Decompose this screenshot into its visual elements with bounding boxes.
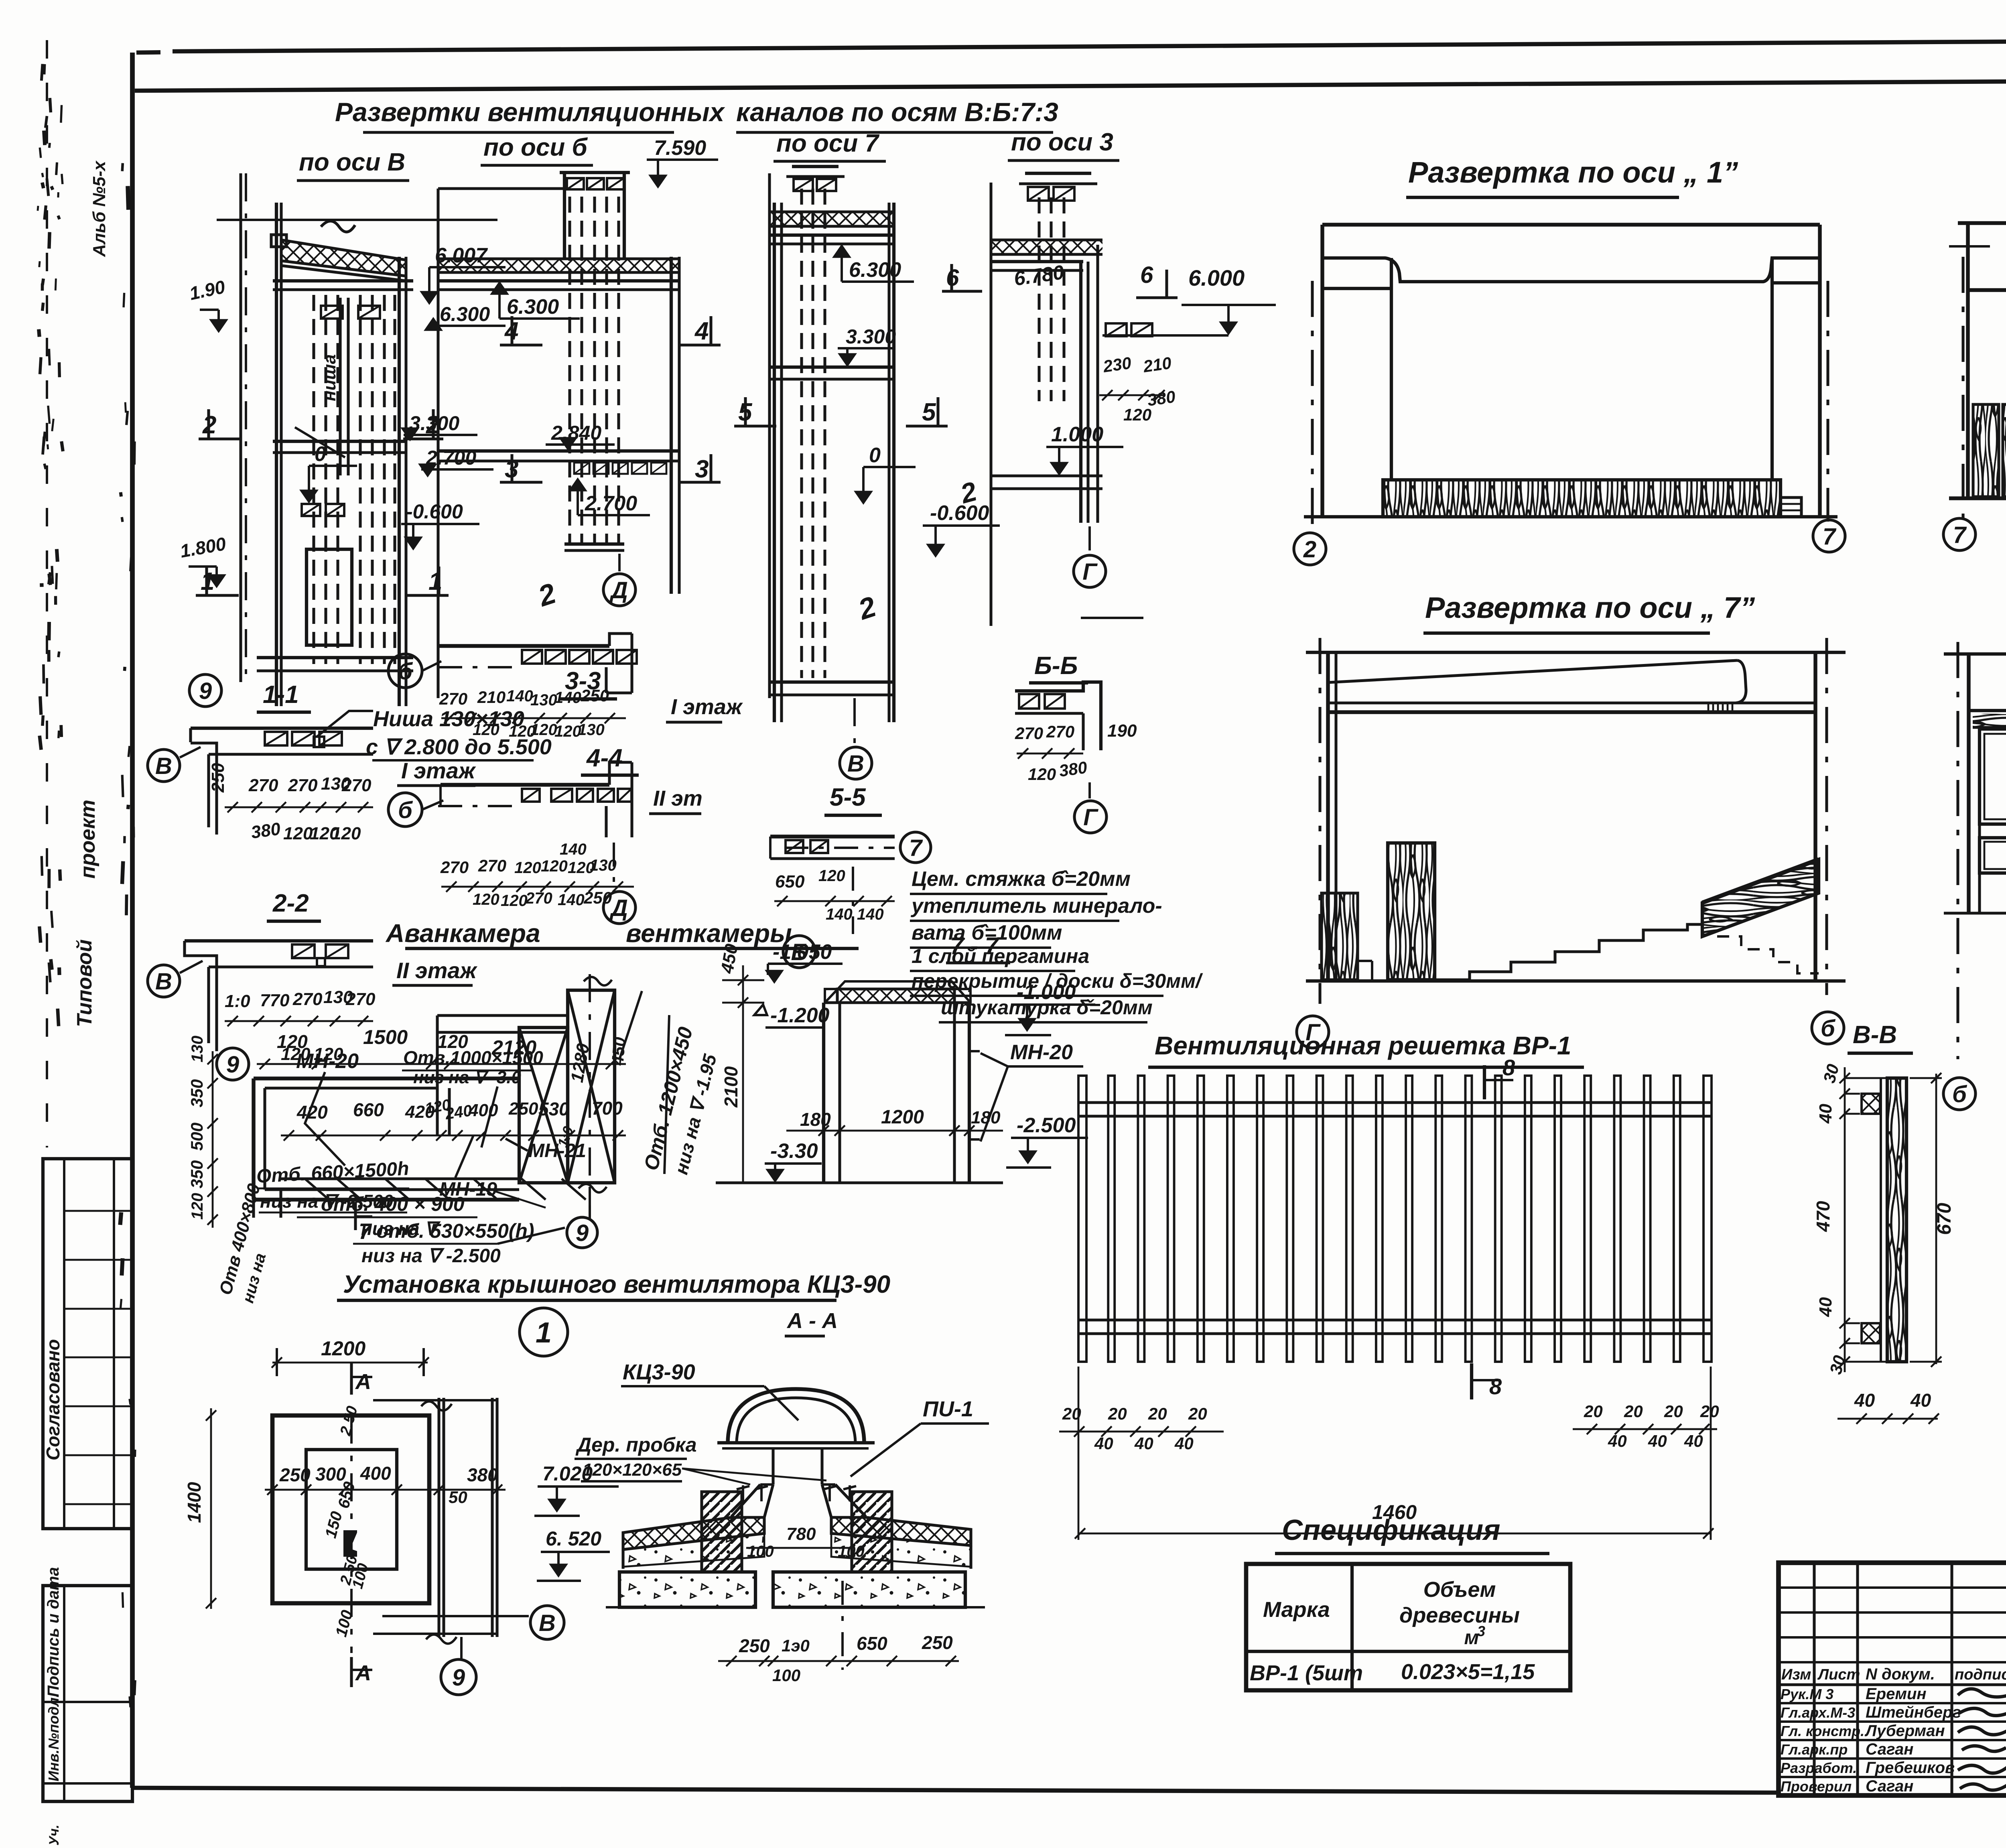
svg-text:решетка ВР-1: решетка ВР-1 — [1387, 1031, 1572, 1060]
svg-text:130: 130 — [590, 857, 617, 874]
svg-text:140: 140 — [558, 891, 585, 909]
svg-text:подпись: подпись — [1955, 1666, 2006, 1683]
svg-text:8: 8 — [1489, 1374, 1502, 1399]
svg-text:Инв.№подл.: Инв.№подл. — [45, 1694, 62, 1781]
svg-text:Саган: Саган — [1866, 1740, 1913, 1758]
svg-text:180: 180 — [971, 1108, 1001, 1127]
svg-text:780: 780 — [786, 1524, 816, 1544]
svg-text:Уч.: Уч. — [47, 1825, 62, 1846]
svg-text:650: 650 — [857, 1633, 887, 1654]
svg-text:б: б — [398, 658, 413, 684]
svg-text:1200: 1200 — [321, 1337, 365, 1360]
svg-text:отб. 400 × 900: отб. 400 × 900 — [321, 1193, 465, 1215]
svg-text:270: 270 — [345, 989, 376, 1009]
svg-text:120: 120 — [473, 891, 499, 908]
svg-text:МН-20: МН-20 — [296, 1050, 359, 1073]
svg-text:270: 270 — [248, 776, 278, 795]
wall detail section 1-1 with niche note — [148, 681, 552, 843]
title Аванкамера венткамеры — [385, 919, 859, 948]
svg-text:20: 20 — [1108, 1404, 1127, 1423]
svg-text:низ на ∇ -2.500: низ на ∇ -2.500 — [361, 1245, 501, 1267]
svg-text:по оси б: по оси б — [483, 134, 588, 161]
plan detail section Б-Б — [1015, 652, 1137, 833]
svg-text:420: 420 — [296, 1102, 328, 1123]
svg-text:Подпись и дата: Подпись и дата — [45, 1567, 62, 1697]
plan of roof fan opening КЦ3-90 — [184, 1337, 564, 1695]
svg-text:530: 530 — [538, 1099, 569, 1119]
svg-text:1200: 1200 — [881, 1107, 924, 1128]
svg-text:Гл.арк.пр: Гл.арк.пр — [1781, 1741, 1848, 1758]
svg-text:Типовой: Типовой — [73, 939, 96, 1027]
svg-text:140: 140 — [506, 687, 533, 705]
elevation Развертка по оси Б — [1943, 156, 2006, 550]
plan Аванкамера вентамеры with dimensions and callouts — [187, 974, 629, 1305]
elevation Развертка по оси 7 — [1297, 591, 1846, 1048]
svg-text:210: 210 — [477, 688, 506, 707]
svg-text:100: 100 — [838, 1543, 865, 1560]
section view po osi V (vent channels development axis V) — [179, 148, 506, 707]
svg-text:380: 380 — [1146, 387, 1177, 410]
plan detail section 4-4 — [388, 744, 703, 924]
svg-text:0: 0 — [315, 443, 326, 466]
svg-text:400: 400 — [360, 1463, 391, 1484]
svg-text:700: 700 — [592, 1098, 623, 1119]
svg-text:ПU-1: ПU-1 — [923, 1397, 973, 1421]
svg-text:2-2: 2-2 — [272, 889, 309, 917]
svg-text:Луберман: Луберман — [1864, 1722, 1945, 1740]
svg-text:МН-21: МН-21 — [528, 1140, 586, 1162]
svg-text:140: 140 — [554, 689, 581, 707]
svg-text:А: А — [355, 1370, 371, 1394]
svg-text:Марка: Марка — [1263, 1598, 1330, 1622]
svg-text:350: 350 — [187, 1079, 206, 1107]
svg-text:350: 350 — [187, 1160, 206, 1188]
svg-text:130: 130 — [578, 721, 605, 739]
svg-text:250: 250 — [508, 1099, 538, 1119]
svg-text:5: 5 — [922, 398, 936, 426]
svg-text:по оси В: по оси В — [299, 148, 405, 176]
svg-text:6.000: 6.000 — [1188, 265, 1245, 290]
svg-text:В: В — [539, 1610, 556, 1636]
svg-text:120: 120 — [1123, 405, 1151, 424]
svg-text:Изм: Изм — [1781, 1666, 1811, 1683]
svg-text:низ на ∇ -3.0: низ на ∇ -3.0 — [413, 1068, 521, 1087]
svg-text:5-5: 5-5 — [830, 784, 866, 811]
title Установка крышного вентилятора КЦ3-90 — [337, 1271, 890, 1356]
svg-text:250: 250 — [581, 686, 609, 705]
svg-text:I этаж: I этаж — [671, 695, 743, 719]
svg-text:Гребешков: Гребешков — [1866, 1759, 1955, 1777]
svg-text:8: 8 — [1502, 1055, 1515, 1080]
svg-text:В: В — [847, 751, 864, 777]
plan detail section 5-5 — [770, 784, 931, 968]
svg-text:-1.050: -1.050 — [773, 940, 832, 964]
svg-text:Гл.арх.М-3: Гл.арх.М-3 — [1781, 1704, 1855, 1721]
svg-text:Лист: Лист — [1817, 1666, 1860, 1683]
svg-text:4-4: 4-4 — [586, 744, 623, 772]
svg-text:Г: Г — [1082, 559, 1098, 585]
svg-text:-2.500: -2.500 — [1017, 1114, 1076, 1137]
svg-text:40: 40 — [1854, 1390, 1875, 1411]
svg-text:120: 120 — [189, 1193, 206, 1220]
svg-text:венткамеры: венткамеры — [626, 919, 792, 948]
svg-text:1.000: 1.000 — [1051, 423, 1103, 446]
svg-text:100: 100 — [772, 1666, 800, 1685]
svg-text:А: А — [355, 1661, 371, 1685]
svg-text:I этаж: I этаж — [401, 758, 476, 783]
svg-text:Д: Д — [609, 577, 628, 603]
svg-text:7 - 7: 7 - 7 — [950, 932, 999, 959]
svg-text:120: 120 — [514, 859, 541, 877]
svg-text:м: м — [1464, 1626, 1479, 1649]
title block (штамп) bottom right — [1779, 1563, 2006, 1795]
svg-text:40: 40 — [1134, 1434, 1153, 1453]
section view po osi b — [438, 134, 721, 698]
section view po osi 3 — [942, 128, 1276, 626]
svg-text:II эт: II эт — [653, 786, 703, 810]
main heading Развертки вентиляционных каналов по осям — [335, 97, 1058, 132]
section 7-7 of vent shaft — [716, 932, 1095, 1183]
rotated opening note Отб 1200х450 — [619, 991, 721, 1176]
svg-text:140: 140 — [560, 841, 587, 858]
svg-text:б: б — [1952, 1081, 1967, 1107]
svg-text:2.840: 2.840 — [551, 422, 601, 444]
svg-text:130: 130 — [189, 1036, 206, 1062]
svg-text:120: 120 — [473, 721, 499, 739]
svg-text:В: В — [155, 753, 172, 779]
svg-text:120: 120 — [541, 857, 568, 875]
svg-text:Развертка по оси „ 7”: Развертка по оси „ 7” — [1425, 591, 1755, 624]
svg-text:Еремин: Еремин — [1866, 1685, 1927, 1703]
svg-text:В: В — [155, 969, 172, 995]
svg-text:3: 3 — [1477, 1623, 1485, 1639]
svg-text:б: б — [1821, 1015, 1836, 1042]
svg-text:Объем: Объем — [1423, 1578, 1496, 1602]
svg-text:утеплитель минерало-: утеплитель минерало- — [910, 894, 1162, 918]
svg-text:-1.200: -1.200 — [770, 1004, 830, 1027]
svg-text:2100: 2100 — [721, 1066, 741, 1108]
svg-text:270: 270 — [292, 989, 323, 1009]
svg-text:120: 120 — [283, 824, 313, 843]
table Спецификация — [1246, 1514, 1570, 1690]
svg-text:Б-Б: Б-Б — [1034, 652, 1078, 680]
svg-text:Штейнберг: Штейнберг — [1866, 1704, 1961, 1721]
svg-text:-1.000: -1.000 — [1017, 981, 1076, 1004]
svg-text:0.023×5=1,15: 0.023×5=1,15 — [1401, 1660, 1535, 1684]
svg-text:Отв.1000×1500: Отв.1000×1500 — [403, 1047, 543, 1068]
svg-text:Альб №5-х: Альб №5-х — [89, 160, 109, 257]
svg-text:40: 40 — [1608, 1432, 1627, 1450]
svg-text:140 140: 140 140 — [826, 906, 884, 923]
svg-text:40: 40 — [1816, 1297, 1835, 1317]
svg-text:3.300: 3.300 — [846, 325, 896, 348]
svg-text:190: 190 — [1107, 721, 1137, 741]
svg-text:7: 7 — [909, 835, 923, 861]
svg-text:6. 520: 6. 520 — [546, 1527, 601, 1550]
svg-text:9: 9 — [576, 1220, 589, 1246]
elevation Развертка по оси 2 — [1943, 586, 2006, 1244]
svg-text:7: 7 — [359, 1218, 372, 1244]
svg-text:Цем. стяжка б̂=20мм: Цем. стяжка б̂=20мм — [912, 867, 1131, 891]
svg-text:4: 4 — [694, 317, 709, 345]
svg-text:7.590: 7.590 — [654, 136, 706, 160]
svg-text:1э0: 1э0 — [782, 1636, 810, 1655]
svg-text:120: 120 — [277, 1031, 308, 1052]
svg-text:-0.600: -0.600 — [930, 502, 989, 525]
svg-text:470: 470 — [1813, 1201, 1833, 1232]
svg-text:Развертка по оси „ 1”: Развертка по оси „ 1” — [1408, 156, 1738, 189]
svg-text:6.300: 6.300 — [849, 258, 901, 282]
svg-text:Разработ.: Разработ. — [1781, 1760, 1857, 1776]
svg-text:КЦ3-90: КЦ3-90 — [623, 1360, 695, 1384]
svg-text:270: 270 — [439, 689, 467, 708]
svg-text:ниша: ниша — [320, 354, 339, 401]
svg-text:Установка крышного вен: Установка крышного вентилятора КЦ3-90 — [343, 1271, 890, 1298]
svg-text:6.300: 6.300 — [440, 303, 490, 325]
svg-text:отб. 530×550(h): отб. 530×550(h) — [376, 1220, 534, 1242]
svg-text:20: 20 — [1700, 1402, 1719, 1421]
svg-text:2.700: 2.700 — [585, 492, 637, 515]
svg-text:20: 20 — [1624, 1402, 1643, 1421]
left margin table Согласовано — [43, 1159, 132, 1529]
svg-text:по оси 3: по оси 3 — [1011, 128, 1113, 156]
left margin rotated annotations — [38, 64, 135, 1707]
svg-text:А - А: А - А — [786, 1309, 838, 1333]
svg-text:7: 7 — [1823, 524, 1837, 550]
svg-text:270: 270 — [1046, 722, 1074, 741]
svg-text:2: 2 — [1303, 536, 1316, 563]
svg-text:II этаж: II этаж — [396, 958, 478, 983]
svg-text:Проверил: Проверил — [1781, 1778, 1852, 1795]
svg-text:650: 650 — [775, 872, 805, 892]
svg-text:Д: Д — [609, 895, 628, 921]
svg-text:250: 250 — [922, 1632, 953, 1653]
svg-text:Г: Г — [1083, 804, 1098, 831]
svg-text:660: 660 — [353, 1099, 384, 1120]
svg-text:3: 3 — [695, 455, 709, 483]
svg-text:20: 20 — [1664, 1402, 1683, 1421]
svg-text:9: 9 — [199, 678, 212, 704]
svg-text:120×120×65: 120×120×65 — [583, 1460, 682, 1480]
roof make-up note (Цем. стяжка etc.) — [910, 867, 1203, 1022]
section В-В of grille plank — [1813, 1021, 1955, 1424]
svg-text:Вентиляционная: Вентиляционная — [1155, 1031, 1381, 1060]
svg-text:120: 120 — [501, 892, 528, 910]
svg-text:270: 270 — [478, 856, 506, 875]
svg-text:770: 770 — [260, 991, 290, 1010]
svg-text:230: 230 — [1102, 353, 1133, 376]
svg-text:120: 120 — [818, 867, 845, 885]
wall detail section 2-2 — [148, 889, 478, 1064]
svg-text:120: 120 — [530, 721, 557, 739]
svg-text:120: 120 — [1028, 765, 1056, 784]
plan detail section 3-3 — [388, 634, 743, 740]
svg-text:Рук.М 3: Рук.М 3 — [1781, 1686, 1833, 1702]
svg-text:Дер. пробка: Дер. пробка — [575, 1434, 697, 1456]
svg-text:120: 120 — [331, 824, 361, 843]
svg-text:7: 7 — [1953, 522, 1967, 548]
svg-text:ВР-1 (5шт: ВР-1 (5шт — [1250, 1661, 1363, 1685]
svg-text:Саган: Саган — [1866, 1777, 1913, 1795]
svg-text:20: 20 — [1584, 1402, 1603, 1421]
svg-text:по оси 7: по оси 7 — [776, 130, 879, 157]
svg-text:Развертки вентиляционных: Развертки вентиляционных — [335, 97, 725, 127]
svg-text:270: 270 — [288, 776, 318, 795]
svg-text:40: 40 — [1816, 1104, 1835, 1124]
svg-text:20: 20 — [1188, 1404, 1207, 1423]
svg-text:9: 9 — [452, 1665, 465, 1691]
svg-text:40: 40 — [1684, 1432, 1703, 1450]
svg-text:130: 130 — [530, 691, 557, 709]
svg-text:100: 100 — [747, 1543, 774, 1560]
svg-text:270: 270 — [525, 889, 552, 907]
svg-text:Аванкамера: Аванкамера — [385, 919, 540, 948]
svg-text:Согласовано: Согласовано — [43, 1339, 63, 1460]
svg-text:проект: проект — [76, 800, 99, 879]
svg-text:40: 40 — [1910, 1390, 1931, 1411]
svg-text:В-В: В-В — [1853, 1021, 1897, 1049]
ventilation grille ВР-1 front view with bars and dimensions — [1059, 1076, 1719, 1540]
svg-text:270: 270 — [440, 858, 469, 877]
svg-text:1-1: 1-1 — [263, 681, 299, 709]
section view po osi 7 — [734, 130, 1000, 779]
left margin table Подпись и дата / Инв № подл — [43, 1567, 132, 1846]
svg-text:N докум.: N докум. — [1866, 1665, 1935, 1683]
svg-text:270: 270 — [341, 776, 372, 795]
svg-text:9: 9 — [226, 1052, 239, 1078]
svg-text:270: 270 — [1015, 724, 1043, 743]
svg-text:1:0: 1:0 — [225, 991, 250, 1011]
elevation Развертка по оси 1 — [1294, 156, 1845, 565]
svg-text:Спецификация: Спецификация — [1282, 1514, 1500, 1546]
svg-text:40: 40 — [1094, 1434, 1113, 1453]
svg-text:20: 20 — [1148, 1404, 1167, 1423]
svg-text:0: 0 — [869, 444, 881, 467]
svg-text:Гл. констр.: Гл. констр. — [1781, 1723, 1864, 1739]
svg-text:каналов по осям В:Б:7:3: каналов по осям В:Б:7:3 — [736, 97, 1058, 127]
svg-text:древесины: древесины — [1399, 1603, 1520, 1627]
svg-text:б: б — [398, 797, 413, 823]
sheet frame top border with page number 18 box — [135, 39, 2006, 91]
svg-text:380: 380 — [1058, 758, 1088, 780]
svg-text:400: 400 — [468, 1101, 498, 1120]
svg-text:6.300: 6.300 — [507, 295, 559, 319]
svg-text:1500: 1500 — [363, 1026, 408, 1048]
svg-text:40: 40 — [1174, 1434, 1194, 1453]
svg-text:МН-20: МН-20 — [1010, 1041, 1073, 1064]
svg-text:6: 6 — [1140, 262, 1153, 288]
svg-text:250: 250 — [739, 1635, 770, 1656]
svg-text:-3.30: -3.30 — [770, 1139, 818, 1163]
svg-text:1: 1 — [536, 1317, 552, 1349]
svg-text:40: 40 — [1648, 1432, 1667, 1450]
section А-А roof fan installation — [534, 1309, 989, 1685]
svg-text:250: 250 — [279, 1464, 311, 1485]
svg-text:7.020: 7.020 — [542, 1462, 593, 1485]
svg-text:380: 380 — [250, 819, 282, 843]
title Вентиляционная решетка ВР-1 — [1148, 1031, 1584, 1099]
svg-text:-0.600: -0.600 — [406, 500, 463, 523]
svg-text:1400: 1400 — [184, 1482, 205, 1523]
svg-text:210: 210 — [1142, 353, 1173, 376]
svg-text:500: 500 — [187, 1123, 206, 1151]
svg-text:250: 250 — [208, 763, 228, 793]
svg-text:120: 120 — [554, 723, 581, 740]
